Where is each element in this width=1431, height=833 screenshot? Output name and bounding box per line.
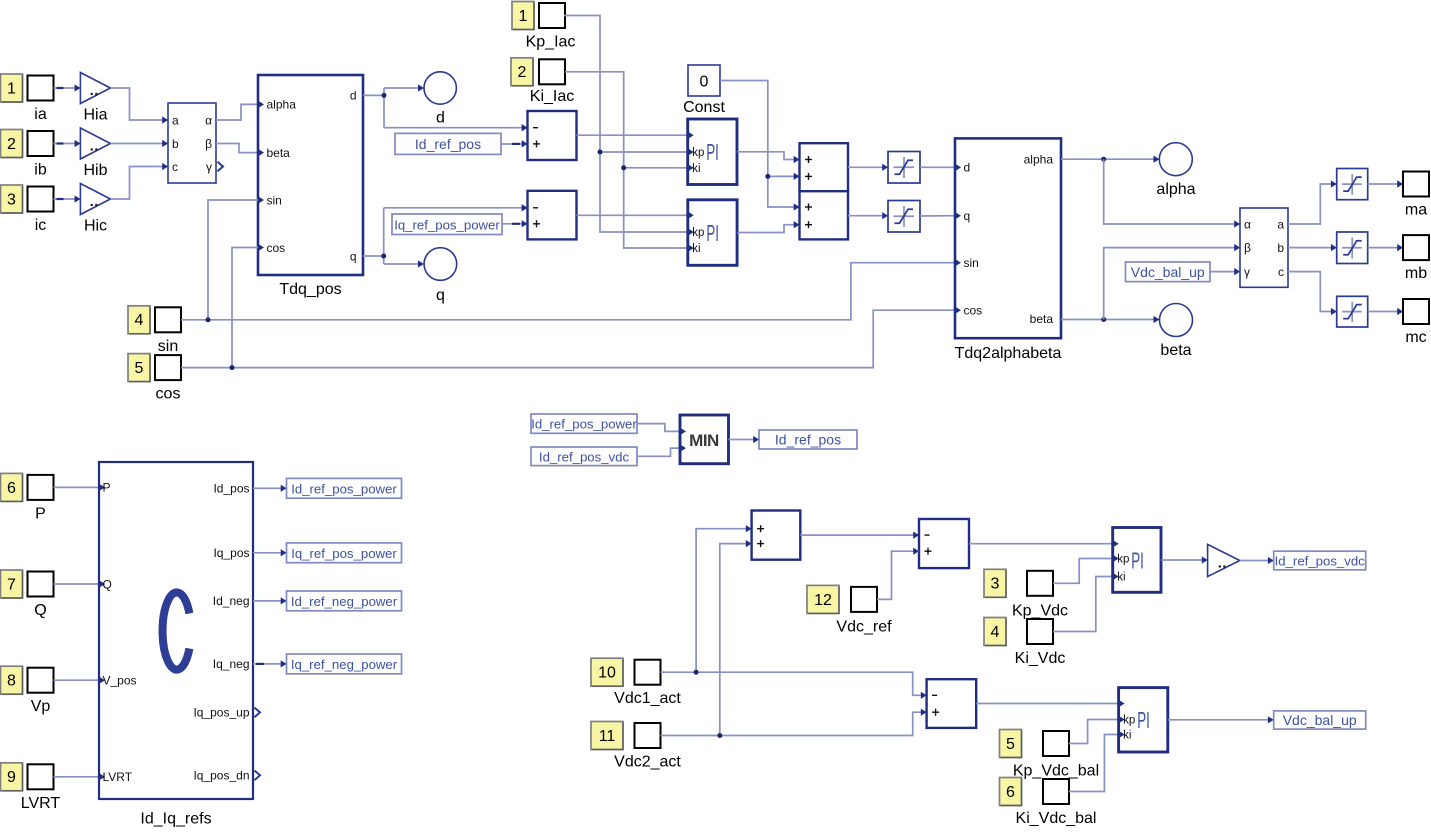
svg-text:Tdq2alphabeta: Tdq2alphabeta	[955, 345, 1062, 362]
svg-text:Iq_ref_pos_power: Iq_ref_pos_power	[291, 546, 397, 561]
svg-text:beta: beta	[1160, 342, 1191, 359]
svg-text:Vdc_ref: Vdc_ref	[836, 619, 892, 636]
svg-text:alpha: alpha	[1024, 153, 1054, 167]
svg-text:0: 0	[700, 74, 709, 91]
svg-text:q: q	[350, 249, 357, 263]
svg-text:Const: Const	[683, 99, 725, 116]
svg-text:ki: ki	[1117, 572, 1125, 584]
svg-text:Id_ref_pos_power: Id_ref_pos_power	[291, 481, 397, 496]
svg-text:LVRT: LVRT	[103, 770, 133, 784]
svg-text:γ: γ	[1244, 265, 1250, 279]
svg-text:1: 1	[7, 80, 16, 97]
svg-text:5: 5	[135, 360, 144, 377]
svg-text:γ: γ	[206, 160, 212, 174]
svg-text:Kp_Iac: Kp_Iac	[526, 34, 576, 51]
svg-text:b: b	[1277, 241, 1284, 255]
svg-text:Iq_pos: Iq_pos	[213, 546, 249, 560]
svg-text:c: c	[172, 160, 178, 174]
svg-text:Hic: Hic	[84, 218, 107, 235]
svg-text:Ki_Vdc_bal: Ki_Vdc_bal	[1016, 810, 1097, 827]
svg-text:ic: ic	[35, 217, 47, 234]
svg-text:Kp_Vdc_bal: Kp_Vdc_bal	[1013, 763, 1099, 780]
svg-text:12: 12	[814, 592, 832, 609]
svg-text:Vdc1_act: Vdc1_act	[614, 690, 681, 707]
svg-text:PI: PI	[706, 139, 719, 165]
svg-text:mb: mb	[1405, 265, 1427, 282]
svg-text:3: 3	[991, 576, 1000, 593]
svg-text:a: a	[172, 113, 179, 127]
svg-text:cos: cos	[156, 386, 181, 403]
svg-text:2: 2	[7, 136, 16, 153]
svg-text:beta: beta	[267, 146, 291, 160]
svg-text:Hib: Hib	[83, 162, 107, 179]
svg-text:Ki_Iac: Ki_Iac	[530, 88, 574, 105]
svg-text:ki: ki	[692, 243, 700, 255]
svg-text:ia: ia	[34, 106, 47, 123]
svg-text:mc: mc	[1405, 329, 1426, 346]
svg-text:cos: cos	[964, 304, 983, 318]
svg-text:d: d	[436, 110, 445, 127]
svg-text:sin: sin	[964, 256, 979, 270]
svg-text:Q: Q	[103, 577, 112, 591]
svg-text:Id_ref_pos_vdc: Id_ref_pos_vdc	[539, 449, 630, 464]
svg-text:PI: PI	[706, 220, 719, 246]
svg-text:ki: ki	[1123, 730, 1131, 742]
svg-text:4: 4	[991, 624, 1000, 641]
svg-text:α: α	[1244, 217, 1251, 231]
svg-text:alpha: alpha	[1156, 181, 1195, 198]
svg-text:7: 7	[7, 576, 16, 593]
svg-text:ki: ki	[692, 163, 700, 175]
svg-text:Id_pos: Id_pos	[213, 482, 249, 496]
svg-text:ib: ib	[34, 162, 47, 179]
svg-text:Id_Iq_refs: Id_Iq_refs	[140, 811, 211, 828]
svg-text:V_pos: V_pos	[103, 674, 137, 688]
svg-text:5: 5	[1006, 736, 1015, 753]
svg-text:MIN: MIN	[689, 431, 719, 450]
svg-text:Ki_Vdc: Ki_Vdc	[1015, 650, 1066, 667]
svg-text:Id_ref_pos: Id_ref_pos	[415, 136, 481, 152]
svg-text:6: 6	[7, 480, 16, 497]
svg-text:P: P	[35, 505, 46, 522]
svg-text:Vdc2_act: Vdc2_act	[614, 754, 681, 771]
svg-text:cos: cos	[267, 241, 286, 255]
svg-text:Id_ref_pos_vdc: Id_ref_pos_vdc	[1275, 554, 1366, 569]
svg-text:Vdc_bal_up: Vdc_bal_up	[1283, 712, 1357, 728]
svg-text:α: α	[205, 113, 212, 127]
svg-text:β: β	[1244, 241, 1251, 255]
svg-text:6: 6	[1006, 784, 1015, 801]
svg-text:Id_ref_pos_power: Id_ref_pos_power	[531, 417, 637, 432]
svg-text:Id_neg: Id_neg	[213, 594, 250, 608]
svg-text:10: 10	[598, 665, 616, 682]
svg-text:8: 8	[7, 673, 16, 690]
svg-text:c: c	[1278, 265, 1284, 279]
svg-text:sin: sin	[267, 193, 282, 207]
svg-text:alpha: alpha	[267, 98, 297, 112]
svg-text:9: 9	[7, 769, 16, 786]
svg-text:3: 3	[7, 191, 16, 208]
svg-text:b: b	[172, 137, 179, 151]
svg-text:Kp_Vdc: Kp_Vdc	[1012, 603, 1068, 620]
svg-text:LVRT: LVRT	[21, 795, 61, 812]
svg-text:Q: Q	[34, 602, 46, 619]
svg-text:2: 2	[518, 64, 527, 81]
svg-text:q: q	[436, 287, 445, 304]
svg-text:Iq_pos_up: Iq_pos_up	[193, 706, 249, 720]
svg-text:q: q	[964, 209, 971, 223]
svg-text:PI: PI	[1137, 707, 1150, 733]
svg-text:kp: kp	[692, 147, 704, 159]
svg-text:Id_ref_neg_power: Id_ref_neg_power	[291, 594, 398, 609]
svg-text:1: 1	[519, 8, 528, 25]
svg-text:Id_ref_pos: Id_ref_pos	[775, 432, 841, 448]
svg-text:11: 11	[599, 728, 616, 745]
svg-text:beta: beta	[1030, 312, 1054, 326]
svg-text:d: d	[350, 89, 357, 103]
svg-text:P: P	[103, 481, 111, 495]
svg-text:Iq_ref_neg_power: Iq_ref_neg_power	[291, 657, 398, 672]
svg-text:4: 4	[135, 312, 144, 329]
svg-text:a: a	[1277, 217, 1284, 231]
svg-text:kp: kp	[692, 227, 704, 239]
svg-text:ma: ma	[1405, 202, 1427, 219]
svg-text:Iq_neg: Iq_neg	[213, 657, 250, 671]
svg-text:β: β	[205, 137, 212, 151]
svg-text:Iq_ref_pos_power: Iq_ref_pos_power	[394, 217, 500, 232]
svg-text:Tdq_pos: Tdq_pos	[279, 281, 341, 298]
svg-text:kp: kp	[1123, 715, 1135, 727]
svg-text:Iq_pos_dn: Iq_pos_dn	[193, 769, 249, 783]
svg-text:PI: PI	[1131, 547, 1144, 573]
svg-text:Vdc_bal_up: Vdc_bal_up	[1131, 264, 1205, 280]
svg-text:kp: kp	[1117, 554, 1129, 566]
svg-text:d: d	[964, 161, 971, 175]
svg-text:sin: sin	[158, 338, 178, 355]
svg-text:Vp: Vp	[31, 698, 51, 715]
svg-text:Hia: Hia	[83, 107, 107, 124]
